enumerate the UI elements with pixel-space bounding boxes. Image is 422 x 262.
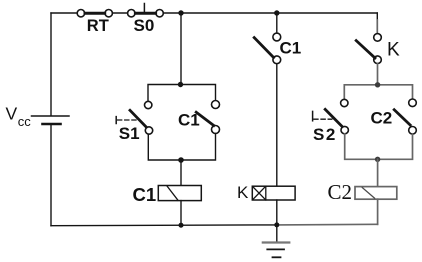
switch S0 (NC pushbutton on top rail) (128, 4, 164, 17)
label K (coil) (237, 183, 249, 202)
label Vcc (6, 104, 32, 129)
label RT (87, 17, 109, 35)
switch C1 contact (right branch of block) (196, 101, 219, 134)
node junction dot block bottom bar (178, 157, 184, 163)
wire between RT and S0 (113, 12, 128, 14)
label C2 (coil) (328, 180, 353, 204)
switch K (relay contact) (356, 34, 381, 64)
svg-text:C1: C1 (280, 39, 302, 58)
relay coil C2 (355, 187, 397, 200)
label S2 (313, 125, 337, 144)
svg-text:V: V (6, 104, 18, 124)
wire middle branch from top rail to C1 switch (276, 13, 278, 33)
svg-text:RT: RT (87, 17, 109, 35)
wire left rail lower (Vcc minus to bottom rail) (50, 125, 52, 226)
relay coil K with X box (252, 186, 295, 200)
label C1 (coil) (133, 184, 157, 205)
svg-text:S2: S2 (313, 125, 337, 144)
wire K switch to S2/C2 block top bar (377, 64, 379, 85)
svg-text:cc: cc (18, 114, 32, 129)
wire block to coil C2 (377, 159, 379, 186)
label S0 (134, 16, 155, 35)
node junction dot top rail / branch 181 (178, 10, 183, 15)
svg-text:S1: S1 (119, 124, 140, 143)
svg-text:C2: C2 (371, 109, 393, 128)
battery Vcc (32, 116, 70, 124)
svg-text:K: K (237, 183, 249, 202)
ground (263, 225, 290, 257)
wire middle branch down to coil K (276, 64, 278, 187)
svg-text:C2: C2 (328, 180, 353, 204)
wire top rail right of S0 to top-right corner (163, 12, 377, 14)
wire coil C1 to bottom rail (180, 201, 182, 226)
svg-text:C1: C1 (133, 184, 157, 205)
svg-text:C1: C1 (178, 111, 200, 130)
wire top rail segment left of RT (51, 12, 77, 14)
wire S2/C2 block top bar (344, 85, 412, 100)
relay coil C1 (158, 186, 201, 201)
wire S2/C2 block bottom bar (345, 134, 413, 160)
svg-text:K: K (387, 40, 400, 61)
wire coil C2 down and corner into bottom rail (377, 199, 379, 224)
switch RT (NC contact on top rail) (77, 10, 112, 17)
wire S1/C1 block bottom bar (148, 134, 215, 161)
switch S1 (pushbutton, left branch) (116, 101, 153, 134)
node junction dot bottom rail at C1 coil (179, 223, 184, 228)
node junction dot right block bottom (375, 157, 380, 162)
label C1 (middle switch) (280, 39, 302, 58)
wire coil K to bottom rail (276, 200, 278, 225)
switch S2 (pushbutton, left branch) (313, 99, 349, 134)
label C2 (contact) (371, 109, 393, 128)
node junction dot top rail / branch 277 (274, 10, 279, 15)
wire bottom rail (51, 224, 378, 225)
node junction dot block top bar (178, 82, 183, 87)
svg-text:S0: S0 (134, 16, 155, 35)
node junction dot bottom rail at K coil / ground (274, 222, 279, 227)
label C1 (contact) (178, 111, 200, 130)
wire S1/C1 block top bar (148, 85, 216, 102)
switch C2 contact (right branch) (394, 99, 416, 134)
label S1 (119, 124, 140, 143)
wire branch from top rail down to S1/C1 block (180, 13, 182, 85)
wire left rail upper (Vcc plus to top rail) (50, 13, 52, 115)
label K (switch) (387, 40, 400, 61)
wire top-right corner down to K switch (376, 13, 378, 34)
node junction dot right block top (375, 82, 380, 87)
switch C1 (middle relay contact) (254, 33, 280, 64)
wire from block down to coil C1 (180, 160, 182, 186)
